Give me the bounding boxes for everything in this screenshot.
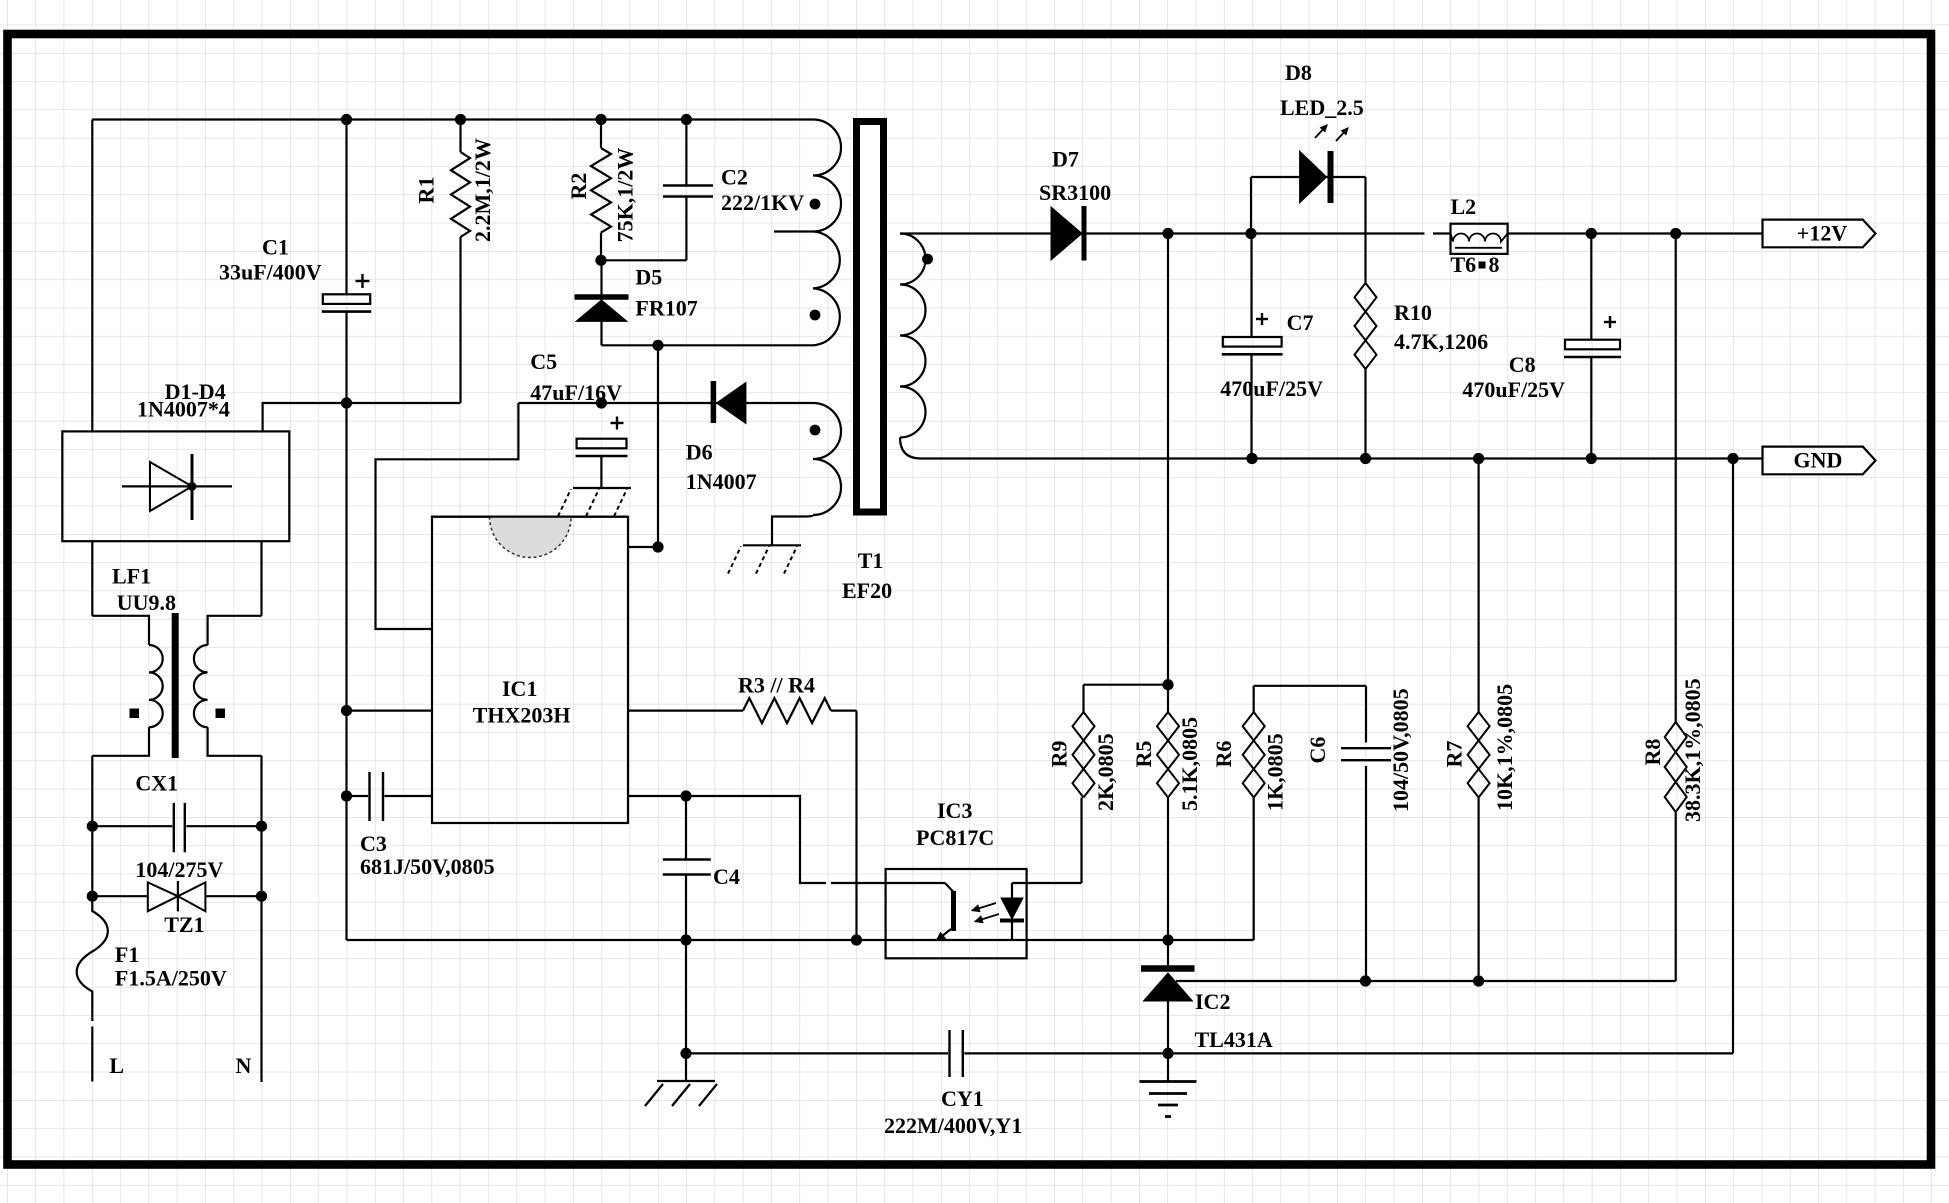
svg-text:1N4007*4: 1N4007*4 xyxy=(137,397,230,422)
svg-text:222M/400V,Y1: 222M/400V,Y1 xyxy=(884,1113,1022,1138)
svg-text:33uF/400V: 33uF/400V xyxy=(219,260,322,285)
svg-text:D7: D7 xyxy=(1052,147,1079,172)
svg-text:D8: D8 xyxy=(1285,60,1312,85)
svg-text:47uF/16V: 47uF/16V xyxy=(530,380,622,405)
svg-text:C8: C8 xyxy=(1509,352,1536,377)
svg-text:2.2M,1/2W: 2.2M,1/2W xyxy=(470,138,495,242)
svg-text:10K,1%,0805: 10K,1%,0805 xyxy=(1492,684,1517,811)
svg-text:681J/50V,0805: 681J/50V,0805 xyxy=(360,854,495,879)
svg-text:THX203H: THX203H xyxy=(473,703,571,728)
svg-text:T6: T6 xyxy=(1451,252,1477,277)
svg-text:R2: R2 xyxy=(566,173,591,200)
svg-text:R5: R5 xyxy=(1131,741,1156,768)
svg-text:N: N xyxy=(236,1053,252,1078)
svg-text:C1: C1 xyxy=(262,234,289,259)
svg-text:104/275V: 104/275V xyxy=(135,857,223,882)
svg-text:C4: C4 xyxy=(713,864,740,889)
svg-text:R7: R7 xyxy=(1442,741,1467,768)
svg-text:38.3K,1%,0805: 38.3K,1%,0805 xyxy=(1680,678,1705,822)
svg-text:LED_2.5: LED_2.5 xyxy=(1280,95,1364,120)
svg-text:R10: R10 xyxy=(1394,300,1432,325)
svg-text:C5: C5 xyxy=(530,349,557,374)
svg-text:C7: C7 xyxy=(1287,310,1314,335)
svg-text:L: L xyxy=(109,1053,124,1078)
svg-text:+12V: +12V xyxy=(1797,221,1848,246)
svg-text:C3: C3 xyxy=(360,831,387,856)
svg-text:R8: R8 xyxy=(1640,739,1665,766)
svg-text:D6: D6 xyxy=(686,439,713,464)
svg-text:5.1K,0805: 5.1K,0805 xyxy=(1177,717,1202,811)
svg-text:C6: C6 xyxy=(1305,737,1330,764)
svg-text:LF1: LF1 xyxy=(112,564,151,589)
svg-text:T1: T1 xyxy=(858,548,884,573)
svg-text:470uF/25V: 470uF/25V xyxy=(1220,376,1323,401)
svg-text:F1.5A/250V: F1.5A/250V xyxy=(115,965,227,990)
svg-text:FR107: FR107 xyxy=(635,295,697,320)
svg-text:IC3: IC3 xyxy=(937,798,972,823)
svg-text:R1: R1 xyxy=(413,177,438,204)
svg-text:L2: L2 xyxy=(1451,194,1477,219)
svg-text:2K,0805: 2K,0805 xyxy=(1093,733,1118,811)
svg-text:TZ1: TZ1 xyxy=(164,912,204,937)
svg-text:104/50V,0805: 104/50V,0805 xyxy=(1388,688,1413,812)
svg-text:IC2: IC2 xyxy=(1195,989,1230,1014)
svg-text:470uF/25V: 470uF/25V xyxy=(1462,377,1565,402)
svg-text:IC1: IC1 xyxy=(502,676,537,701)
svg-text:F1: F1 xyxy=(115,942,139,967)
svg-text:R3 // R4: R3 // R4 xyxy=(738,673,815,698)
svg-text:R9: R9 xyxy=(1047,741,1072,768)
svg-text:C2: C2 xyxy=(721,164,748,189)
svg-text:SR3100: SR3100 xyxy=(1039,180,1111,205)
svg-text:PC817C: PC817C xyxy=(916,825,994,850)
svg-text:222/1KV: 222/1KV xyxy=(721,190,804,215)
svg-text:R6: R6 xyxy=(1211,741,1236,768)
svg-text:1N4007: 1N4007 xyxy=(686,469,757,494)
svg-text:CY1: CY1 xyxy=(941,1086,984,1111)
svg-text:EF20: EF20 xyxy=(842,578,892,603)
svg-text:1K,0805: 1K,0805 xyxy=(1263,733,1288,811)
svg-text:8: 8 xyxy=(1489,252,1500,277)
svg-text:4.7K,1206: 4.7K,1206 xyxy=(1394,329,1488,354)
svg-text:UU9.8: UU9.8 xyxy=(117,590,176,615)
svg-text:CX1: CX1 xyxy=(135,771,178,796)
svg-text:75K,1/2W: 75K,1/2W xyxy=(613,148,638,243)
svg-text:GND: GND xyxy=(1794,448,1843,473)
svg-text:TL431A: TL431A xyxy=(1195,1027,1273,1052)
svg-text:D5: D5 xyxy=(635,265,662,290)
